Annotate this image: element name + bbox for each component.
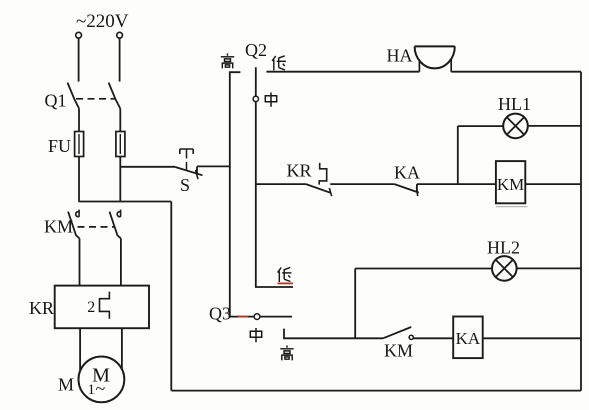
svg-text:KR: KR xyxy=(287,161,312,181)
label high (Q2) xyxy=(221,53,234,68)
svg-text:~: ~ xyxy=(96,379,106,399)
switch Q1 xyxy=(68,83,121,109)
label middle (Q2) xyxy=(265,93,276,107)
wire HL2 right xyxy=(517,267,581,269)
svg-text:FU: FU xyxy=(48,136,71,156)
contactor main contact KM pole 2 xyxy=(110,210,121,286)
contactor contact KM (NO) xyxy=(383,327,453,340)
right rail xyxy=(580,72,582,391)
KM main contacts dashed link xyxy=(78,226,115,228)
wire KR to motor left xyxy=(79,328,81,370)
terminal N xyxy=(117,32,123,38)
level switch Q2 blade and low branch xyxy=(256,67,293,287)
wire KA contact to KM coil xyxy=(417,183,496,185)
wire Q2 middle junction to KR contact xyxy=(256,183,306,185)
wire KR to KA contact xyxy=(330,183,394,185)
wire KM coil to right rail xyxy=(525,183,581,185)
svg-text:HL2: HL2 xyxy=(487,238,520,258)
lamp HL2 xyxy=(492,256,517,281)
wire L1 Q1 to tie xyxy=(78,108,80,201)
relay coil KA xyxy=(453,317,483,359)
level switch Q3 common wire xyxy=(230,316,292,318)
wire S output to high rail xyxy=(197,165,231,167)
wire bottom rail xyxy=(171,390,581,392)
wire tie L1-N xyxy=(79,201,172,203)
label low (Q3) xyxy=(278,267,292,282)
Q3 middle contact xyxy=(254,314,260,320)
wire KR to motor right xyxy=(121,328,123,369)
svg-text:M: M xyxy=(58,375,74,395)
wire control return drop xyxy=(170,202,172,391)
wire N Q1 to tie xyxy=(119,108,121,201)
terminal L1 xyxy=(76,32,82,38)
svg-text:Q2: Q2 xyxy=(245,40,267,60)
svg-text:Q3: Q3 xyxy=(209,304,231,324)
fuse FU left xyxy=(75,132,84,157)
wire L1 drop xyxy=(78,38,80,81)
svg-text:2: 2 xyxy=(87,299,95,316)
Q2 middle contact xyxy=(253,96,258,101)
red underline under low (Q3) xyxy=(278,282,294,284)
thermal relay KR heater box xyxy=(55,286,149,329)
svg-text:KM: KM xyxy=(497,175,524,194)
svg-text:~220V: ~220V xyxy=(76,11,129,32)
svg-text:KR: KR xyxy=(29,298,54,318)
label middle (Q3) xyxy=(250,328,261,342)
svg-text:1: 1 xyxy=(88,382,96,398)
contactor main contact KM pole 1 xyxy=(68,210,79,286)
wire HL1 left xyxy=(458,125,503,127)
svg-text:KM: KM xyxy=(384,341,413,361)
wire HL1 right xyxy=(528,125,581,127)
svg-text:Q1: Q1 xyxy=(45,91,67,111)
fuse FU right xyxy=(116,132,125,157)
lamp HL1 branch vertical xyxy=(457,126,459,184)
bell HA xyxy=(415,46,455,71)
label low (Q2) xyxy=(272,56,286,71)
svg-text:KA: KA xyxy=(456,329,481,348)
wire control feed to S xyxy=(120,166,175,168)
svg-text:KM: KM xyxy=(44,217,73,237)
Q3 high bracket and wire xyxy=(284,329,383,339)
relay contact KA (NC) xyxy=(394,184,418,196)
wire HL2 left xyxy=(355,268,492,270)
svg-text:S: S xyxy=(180,175,190,195)
Q3 red mark xyxy=(238,316,248,318)
motor M1 xyxy=(79,357,125,403)
wire HA to right rail xyxy=(451,71,581,73)
relay contact KR (NC with hook) xyxy=(306,163,332,196)
wire KA coil to right rail xyxy=(483,337,581,339)
contactor coil KM xyxy=(496,161,528,207)
wire Q2 low to bell HA xyxy=(266,71,419,73)
lamp HL1 xyxy=(503,114,528,139)
switch S xyxy=(175,149,202,179)
wire N drop xyxy=(119,38,121,81)
label high (Q3) xyxy=(280,345,293,360)
svg-text:KA: KA xyxy=(394,163,420,183)
svg-text:HA: HA xyxy=(387,46,413,66)
lamp HL2 branch vertical xyxy=(354,269,356,339)
node high rail (Q2 high to Q3 common) xyxy=(230,72,241,316)
svg-text:HL1: HL1 xyxy=(498,94,531,114)
